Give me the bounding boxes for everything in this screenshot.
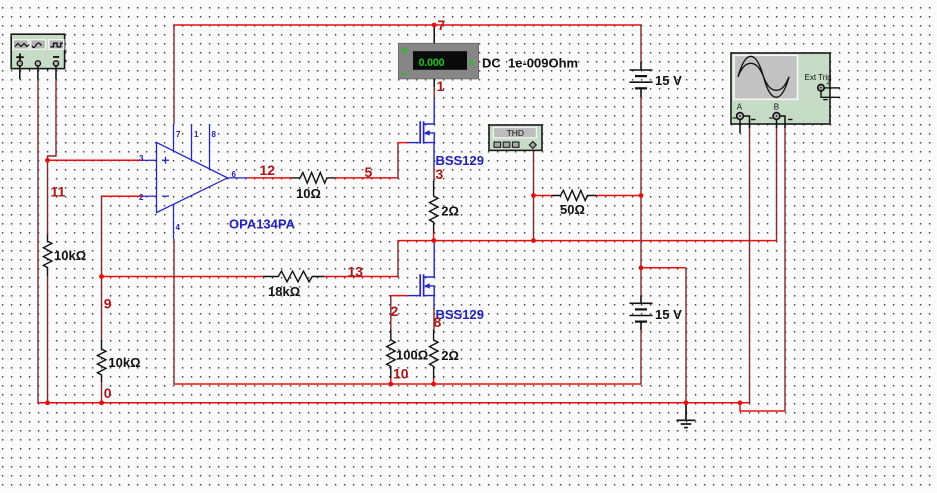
value label 100ohm [396,348,428,363]
resistor R6 2ohm lower [430,330,439,379]
svg-text:7: 7 [438,17,446,33]
battery V1 15V [630,62,653,97]
svg-text:2Ω: 2Ω [441,204,459,219]
wire node 7 to ammeter [433,25,435,87]
svg-text:6: 6 [232,170,237,179]
svg-text:15 V: 15 V [655,307,682,322]
battery mid junction lower [639,265,644,270]
oscilloscope XSC1 [731,53,840,124]
wire node 5 to gate riser [335,177,399,179]
op-amp pin labels [139,130,237,232]
resistor R8 10kohm lower [97,340,106,382]
resistor R3 50ohm [552,190,597,200]
wire node 9 riser [101,196,103,342]
node label 10 [393,366,409,382]
wire R 10k upper bottom lead to ground rail [47,275,49,403]
wire gate riser Q1 [397,143,399,179]
resistor R2 18kohm [263,271,324,282]
node label 5 [365,164,373,180]
wire B minus jog [740,403,786,412]
wire top +15V rail [174,24,641,26]
function generator XFG1 [11,34,66,70]
value label 2ohm lower [441,348,459,363]
transistor Q1 BSS129 [420,121,423,143]
wire scope B minus drop [784,127,786,411]
THD junction upper [531,193,536,198]
svg-text:1: 1 [437,78,445,94]
svg-text:10kΩ: 10kΩ [54,248,86,263]
svg-text:12: 12 [260,162,276,178]
wire node 13 horizontal [102,276,265,278]
node label 3 [436,166,444,182]
wire THD meter drop [533,148,535,196]
wire R 2ohm to output rail [433,232,435,240]
wire gate feed Q2 [391,295,408,297]
resistor R4 2ohm upper [430,181,439,233]
node label 11 [51,184,66,200]
node label 8 [434,314,442,330]
node 11 junction [45,158,50,163]
svg-text:8: 8 [434,314,442,330]
node label 0 [104,385,112,401]
wire drain Q1 down lead [433,143,435,166]
wire node 13 to riser [324,276,399,278]
wire node 10 rail [174,383,641,385]
svg-text:18kΩ: 18kΩ [268,284,300,299]
wire op-amp output node 12 [248,177,293,179]
svg-text:15 V: 15 V [655,73,682,88]
battery V2 15V [630,296,653,331]
node label 7 [438,17,446,33]
svg-text:50Ω: 50Ω [560,202,585,217]
wire scope A minus drop [749,127,751,404]
THD meter XDA1 [489,125,542,150]
wire R 2ohm lower to node 10 rail [433,378,435,385]
svg-text:13: 13 [348,264,364,280]
svg-text:5: 5 [365,164,373,180]
resistor R5 100ohm [387,330,396,379]
wire 50ohm left feed [534,195,553,197]
wire battery V2 bottom to node 10 rail [640,330,642,385]
svg-text:B: B [774,103,779,112]
value label 10kohm upper [54,248,86,263]
node label 2 [391,303,399,319]
wire source Q2 down lead [433,296,435,309]
wire battery V1 top riser [640,24,642,62]
wire scope B plus stub black [776,120,778,129]
svg-text:+: + [826,81,830,88]
svg-text:100Ω: 100Ω [396,348,428,363]
svg-text:0: 0 [104,385,112,401]
transistor Q2 BSS129 [420,274,423,296]
svg-text:3: 3 [436,166,444,182]
node label 9 [104,296,112,312]
ground [677,403,696,428]
node 10 junction 100ohm [388,382,393,387]
meter readout label DC 1e-009Ohm [482,56,578,71]
svg-text:10: 10 [393,366,409,382]
svg-text:DC 1e-009Ohm: DC 1e-009Ohm [482,56,578,71]
part label OPA134PA [229,217,296,232]
svg-text:A: A [469,59,475,68]
wire gate feed Q1 [397,142,407,144]
svg-text:4: 4 [176,223,181,232]
resistor R1 10ohm [292,173,336,184]
svg-text:10kΩ: 10kΩ [108,355,140,370]
part label BSS129 upper [436,153,484,168]
value label 18kohm [268,284,300,299]
ammeter U2 [399,43,479,78]
node label 12 [260,162,276,178]
wire source Q2 down node 8 [433,308,435,330]
resistor R7 10kohm upper [43,235,52,277]
node label 13 [348,264,364,280]
wire FG terminal stubs [20,66,56,79]
wire node 2 drop to R 100ohm [390,295,392,330]
svg-text:10Ω: 10Ω [296,186,321,201]
wire midpoint to ground branch [641,267,686,269]
svg-text:1: 1 [194,130,199,139]
wire scope B minus hook [780,116,785,128]
node 10 junction 2ohm [431,382,436,387]
wire ground branch drop [685,268,687,403]
wire pin7 supply riser [173,24,175,124]
svg-text:2: 2 [391,303,399,319]
value label 15V upper [655,73,682,88]
node 3 junction [431,238,436,243]
node 9 junction [99,274,104,279]
wire battery column mid [640,97,642,296]
node 0 junction mid [99,400,104,405]
svg-text:THD: THD [507,128,524,138]
wire 50ohm junction riser [533,196,535,241]
svg-text:0.000: 0.000 [419,57,445,69]
wire inverting input [102,195,144,197]
svg-text:OPA134PA: OPA134PA [229,217,296,232]
wire node 13 riser [397,241,399,278]
value label 10kohm lower [108,355,140,370]
wire ground rail node 0 [37,402,749,404]
wire FG minus terminal down [48,79,57,160]
battery mid junction upper [639,193,644,198]
op-amp U1 OPA134PA [144,124,248,239]
value label 50ohm [560,202,585,217]
wire scope B plus drop [776,127,778,241]
wire 50ohm right to battery column [596,195,641,197]
node label 1 [437,78,445,94]
svg-text:BSS129: BSS129 [436,307,484,322]
wire FG common to ground rail [37,79,39,403]
value label 2ohm upper [441,204,459,219]
svg-text:7: 7 [176,130,181,139]
svg-text:9: 9 [104,296,112,312]
svg-text:A: A [737,103,743,112]
wire R 10k lower bottom lead to ground rail [101,381,103,403]
node 0 junction left [45,400,50,405]
value label 15V lower [655,307,682,322]
wire ammeter to drain Q1 [433,86,435,98]
wire pin4 supply drop [173,239,175,385]
wire R 100ohm to node 10 rail [390,378,392,385]
svg-text:2Ω: 2Ω [441,348,459,363]
svg-text:11: 11 [51,184,66,200]
wire node 11 down to R 10k [47,160,49,235]
svg-text:8: 8 [212,130,217,139]
node 7 junction [432,23,437,28]
wire scope A minus hook [744,116,750,128]
part label BSS129 lower [436,307,484,322]
THD junction lower [531,238,536,243]
wire output rail node 3 net [397,240,776,242]
value label 10ohm [296,186,321,201]
ground junction [684,400,689,405]
wire source Q1 to R 2ohm [433,165,435,182]
wire scope A plus stub [739,120,741,134]
wire noninverting input [48,159,144,161]
svg-text:3: 3 [139,154,144,163]
scope jog junction [738,400,743,405]
svg-text:2: 2 [139,193,144,202]
